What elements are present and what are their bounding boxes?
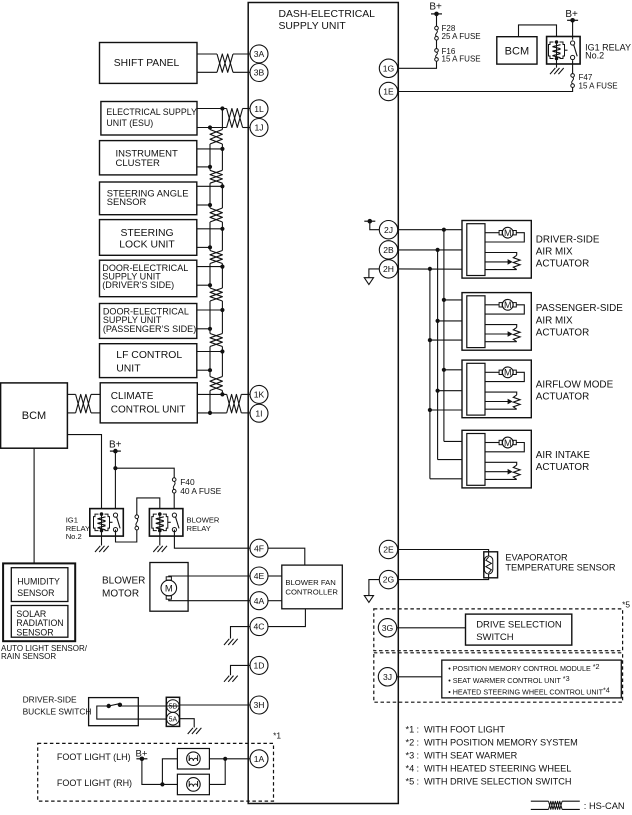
svg-text::: : bbox=[417, 725, 420, 735]
BCM box (top right) bbox=[497, 37, 537, 64]
svg-text:• HEATED STEERING WHEEL CONTRO: • HEATED STEERING WHEEL CONTROL UNIT*4 bbox=[448, 686, 610, 697]
label *1 bbox=[273, 731, 281, 741]
twisted pair chain segment 7 bbox=[210, 377, 222, 391]
svg-text:3J: 3J bbox=[383, 672, 392, 682]
svg-text:(PASSENGER’S SIDE): (PASSENGER’S SIDE) bbox=[103, 324, 196, 334]
svg-text:SUPPLY UNIT: SUPPLY UNIT bbox=[279, 21, 347, 32]
wire IG1 coil ground bbox=[556, 59, 558, 68]
svg-text:ACTUATOR: ACTUATOR bbox=[536, 392, 589, 403]
wire junction to F40 bbox=[115, 468, 174, 478]
svg-text:B+: B+ bbox=[109, 439, 122, 450]
svg-text:M: M bbox=[504, 438, 512, 448]
svg-text:BUCKLE SWITCH: BUCKLE SWITCH bbox=[23, 707, 92, 717]
wire twist to 1J bbox=[243, 127, 250, 129]
connector 2B bbox=[379, 241, 397, 259]
B+ supply foot light bbox=[136, 748, 148, 761]
svg-text:2H: 2H bbox=[383, 264, 394, 274]
driver-side air mix actuator bbox=[462, 221, 531, 279]
LF control unit box bbox=[100, 344, 197, 378]
wire twist to climate top bbox=[91, 393, 100, 395]
svg-text:WITH SEAT WARMER: WITH SEAT WARMER bbox=[424, 751, 518, 761]
svg-text:DRIVER-SIDE: DRIVER-SIDE bbox=[536, 234, 600, 245]
wire B+ to F28 bbox=[436, 14, 438, 26]
svg-text:1J: 1J bbox=[254, 123, 263, 133]
dash-electrical supply unit label bbox=[279, 9, 376, 32]
wire instrument cluster top bbox=[197, 147, 224, 151]
wire 2E to sensor bbox=[398, 550, 489, 557]
branch to actuator 2 motor bbox=[442, 298, 462, 302]
svg-text:UNIT: UNIT bbox=[116, 363, 141, 374]
wire 5B to 3H bbox=[180, 704, 250, 706]
twisted pair chain segment 5 bbox=[210, 288, 222, 301]
label *5 bbox=[622, 599, 630, 609]
electrical supply unit (ESU) box bbox=[101, 102, 197, 136]
svg-text:LF CONTROL: LF CONTROL bbox=[116, 350, 182, 361]
blower fan controller box bbox=[282, 565, 343, 609]
svg-text:WITH POSITION MEMORY SYSTEM: WITH POSITION MEMORY SYSTEM bbox=[424, 738, 578, 748]
wire B+ to lamps bbox=[142, 759, 178, 787]
svg-text:WITH FOOT LIGHT: WITH FOOT LIGHT bbox=[424, 725, 505, 735]
svg-text:DRIVE SELECTION: DRIVE SELECTION bbox=[476, 620, 562, 631]
connector 2G bbox=[379, 570, 397, 588]
connector 4E bbox=[250, 567, 268, 585]
wire 4E to controller bbox=[268, 575, 282, 577]
wire door esu passenger top bbox=[197, 308, 224, 312]
svg-text:4C: 4C bbox=[254, 622, 265, 632]
wire 2B to bus bbox=[398, 248, 462, 252]
wire ESU to 1J bbox=[197, 127, 227, 129]
wire shift panel to 3A bbox=[197, 53, 217, 55]
door-electrical supply unit (driver) box bbox=[100, 260, 197, 297]
wire steering angle sensor top bbox=[197, 184, 224, 188]
wire climate to 1K bbox=[197, 392, 227, 396]
connector 2E bbox=[379, 540, 397, 558]
svg-text:25 A FUSE: 25 A FUSE bbox=[442, 32, 481, 41]
twisted pair shift panel bbox=[217, 54, 233, 72]
wire F47 to 1E bbox=[398, 87, 573, 91]
wire 2G to sensor bbox=[398, 574, 489, 580]
wire BCM to IG1 relay coil bbox=[67, 435, 101, 509]
svg-text:WITH DRIVE SELECTION SWITCH: WITH DRIVE SELECTION SWITCH bbox=[424, 776, 572, 786]
svg-text:(DRIVER’S SIDE): (DRIVER’S SIDE) bbox=[102, 280, 174, 290]
twisted pair BCM-climate bbox=[76, 394, 91, 413]
dashed option box 3J bbox=[374, 653, 623, 702]
wire BCM to twist top bbox=[67, 393, 75, 395]
bus 2J vertical bbox=[444, 230, 462, 442]
svg-text:3G: 3G bbox=[382, 623, 394, 633]
wire 5A to ground bbox=[180, 719, 195, 728]
wire LH lamp to 1A bbox=[209, 757, 250, 761]
wire twist to climate bottom bbox=[91, 412, 100, 414]
passenger-side air mix actuator bbox=[462, 293, 531, 351]
svg-text:RELAY: RELAY bbox=[187, 524, 211, 533]
wire 1D to ground bbox=[231, 665, 251, 675]
svg-text:1G: 1G bbox=[383, 63, 395, 73]
svg-text:AIR MIX: AIR MIX bbox=[536, 315, 573, 326]
label BLOWER relay bbox=[187, 516, 220, 534]
label IG1 relay No.2 bbox=[585, 42, 631, 60]
wire B+ down bbox=[114, 451, 116, 509]
wire shift panel to 3B bbox=[197, 71, 217, 73]
label F40 bbox=[180, 477, 221, 496]
svg-text:3A: 3A bbox=[254, 49, 265, 59]
svg-text:*1: *1 bbox=[406, 725, 415, 735]
wire BCM to IG1 relay bbox=[519, 25, 557, 37]
lamp foot light LH bbox=[177, 749, 209, 770]
wire RH lamp up bbox=[209, 759, 225, 785]
relay BLOWER (mid-left) bbox=[149, 509, 183, 536]
shift panel box bbox=[100, 43, 198, 84]
wire door esu passenger bottom bbox=[197, 327, 212, 331]
ground 4C bbox=[224, 639, 238, 645]
svg-text:*1: *1 bbox=[273, 731, 281, 741]
svg-text:4E: 4E bbox=[254, 571, 265, 581]
wire CAN bus left line bbox=[209, 128, 211, 413]
wire blower coil to ground bbox=[159, 531, 161, 546]
dash-electrical supply unit box bbox=[248, 3, 398, 804]
label driver-side buckle switch bbox=[23, 694, 92, 716]
svg-text:M: M bbox=[504, 300, 512, 310]
svg-text:DRIVER-SIDE: DRIVER-SIDE bbox=[23, 694, 77, 704]
blower motor box bbox=[150, 563, 188, 612]
connector 1D bbox=[250, 656, 268, 674]
svg-text:*4: *4 bbox=[406, 763, 415, 773]
legend HS-CAN label bbox=[584, 801, 625, 811]
svg-text:M: M bbox=[165, 584, 173, 595]
svg-text:3H: 3H bbox=[254, 700, 265, 710]
connector 1I bbox=[250, 404, 268, 422]
svg-text:2G: 2G bbox=[383, 575, 395, 585]
svg-text:HUMIDITY: HUMIDITY bbox=[17, 577, 60, 587]
lamp foot light RH bbox=[177, 774, 209, 795]
svg-text:WITH HEATED STEERING WHEEL: WITH HEATED STEERING WHEEL bbox=[424, 763, 571, 773]
wire LF control top bbox=[197, 349, 224, 353]
motor M1 blower bbox=[161, 577, 177, 599]
dashed option box foot light bbox=[38, 743, 274, 801]
ground 2H triangle bbox=[364, 278, 373, 285]
connector 1L bbox=[250, 100, 268, 118]
steering angle sensor box bbox=[100, 182, 197, 215]
wire twist to 3B bbox=[233, 71, 250, 73]
wire twist to 1I bbox=[241, 412, 250, 414]
svg-text:BLOWER: BLOWER bbox=[102, 576, 145, 587]
buckle switch contacts bbox=[97, 703, 180, 720]
wire 3J to option list bbox=[397, 676, 442, 678]
wire steering lock unit top bbox=[197, 227, 224, 231]
wire twist to 3A bbox=[233, 53, 250, 55]
wire BCM to sensors bbox=[33, 448, 35, 563]
svg-text:15 A FUSE: 15 A FUSE bbox=[442, 54, 481, 63]
svg-text:4F: 4F bbox=[254, 543, 264, 553]
svg-text:1I: 1I bbox=[255, 408, 262, 418]
ground buckle switch bbox=[188, 728, 202, 734]
wire ESU to 1L bbox=[197, 108, 227, 110]
wire 4C to controller bbox=[268, 609, 305, 627]
ground IG1 relay (top) bbox=[550, 68, 564, 74]
auto light/rain sensor outer box bbox=[3, 563, 75, 641]
ground 2H wire bbox=[369, 269, 379, 278]
ground 2G triangle bbox=[364, 596, 373, 603]
connector 3B bbox=[250, 64, 268, 82]
connector 4C bbox=[250, 618, 268, 636]
node ESU bottom junction bbox=[208, 125, 212, 129]
branch to actuator 3 low bbox=[428, 408, 462, 412]
svg-text:SWITCH: SWITCH bbox=[476, 632, 514, 643]
wire F16 to 1G bbox=[398, 61, 437, 68]
svg-text:RAIN SENSOR: RAIN SENSOR bbox=[1, 652, 56, 661]
svg-text:STEERING: STEERING bbox=[120, 228, 173, 239]
twisted pair climate bbox=[227, 394, 242, 413]
svg-text:1A: 1A bbox=[254, 754, 265, 764]
wire instrument cluster bottom bbox=[197, 165, 212, 169]
wire blower motor to 4A bbox=[169, 599, 250, 601]
humidity sensor box bbox=[11, 568, 68, 602]
wire climate to 1I bbox=[197, 411, 227, 415]
branch to actuator 2 mid bbox=[436, 319, 463, 323]
svg-text:MOTOR: MOTOR bbox=[102, 589, 139, 600]
svg-text:• SEAT WARMER CONTROL UNIT *3: • SEAT WARMER CONTROL UNIT *3 bbox=[448, 674, 569, 685]
svg-text:2J: 2J bbox=[384, 225, 393, 235]
svg-text:No.2: No.2 bbox=[585, 51, 604, 61]
svg-text:5B: 5B bbox=[169, 704, 178, 711]
svg-text:CLIMATE: CLIMATE bbox=[111, 391, 154, 402]
label foot light LH bbox=[57, 752, 131, 762]
ground 2G wire bbox=[369, 580, 379, 596]
wire CAN bus right line bbox=[221, 109, 223, 395]
svg-text:1K: 1K bbox=[254, 390, 265, 400]
svg-text:DASH-ELECTRICAL: DASH-ELECTRICAL bbox=[279, 9, 376, 20]
wire steering lock unit bottom bbox=[197, 245, 212, 249]
B+ supply (relay) bbox=[565, 9, 578, 23]
svg-text:BLOWER FAN: BLOWER FAN bbox=[285, 578, 335, 587]
svg-text:M: M bbox=[504, 228, 512, 238]
label air intake actuator bbox=[536, 450, 591, 473]
svg-text:No.2: No.2 bbox=[66, 532, 82, 541]
svg-text:15 A FUSE: 15 A FUSE bbox=[579, 81, 618, 90]
svg-text:ACTUATOR: ACTUATOR bbox=[536, 462, 589, 473]
svg-text:AIR MIX: AIR MIX bbox=[536, 247, 573, 258]
svg-text:SHIFT PANEL: SHIFT PANEL bbox=[114, 58, 180, 69]
relay IG1 No.2 (top right) bbox=[547, 37, 581, 65]
wire twist to 1K bbox=[241, 393, 250, 395]
dashed option box drive selection bbox=[374, 609, 623, 651]
B+ supply (top) bbox=[429, 1, 442, 16]
door-electrical supply unit (passenger) box bbox=[100, 304, 197, 339]
svg-text:B+: B+ bbox=[429, 1, 442, 12]
svg-text:CLUSTER: CLUSTER bbox=[116, 158, 160, 169]
wire blower motor to 4E bbox=[169, 575, 250, 578]
BCM box bbox=[1, 383, 68, 448]
branch to actuator 3 motor bbox=[442, 368, 462, 372]
svg-text:EVAPORATOR: EVAPORATOR bbox=[505, 552, 568, 562]
ground IG1 relay coil bbox=[95, 546, 109, 552]
wire IG1 switch to F47 bbox=[572, 60, 574, 73]
connector 2J bbox=[379, 221, 397, 239]
svg-text:AIRFLOW MODE: AIRFLOW MODE bbox=[536, 379, 614, 390]
svg-text:SENSOR: SENSOR bbox=[17, 588, 54, 598]
wire 2H to bus bbox=[398, 267, 462, 271]
svg-text:SENSOR: SENSOR bbox=[107, 196, 147, 207]
instrument cluster box bbox=[100, 141, 197, 175]
svg-text:3B: 3B bbox=[254, 68, 265, 78]
svg-text:1L: 1L bbox=[254, 104, 264, 114]
legend HS-CAN twisted pair bbox=[531, 801, 580, 809]
steering lock unit box bbox=[100, 220, 197, 256]
bus 2B vertical bbox=[438, 250, 462, 460]
buckle switch box bbox=[89, 698, 139, 726]
svg-text:ELECTRICAL SUPPLY: ELECTRICAL SUPPLY bbox=[106, 107, 197, 117]
fuse F40 bbox=[172, 478, 176, 493]
wire steering angle sensor bottom bbox=[197, 203, 212, 207]
twisted pair chain segment 2 bbox=[210, 170, 222, 183]
connector 1E bbox=[379, 82, 397, 100]
blower motor label bbox=[102, 576, 145, 600]
ground 1D bbox=[224, 676, 238, 682]
wire IG1 switch to blower coil bbox=[116, 498, 160, 542]
svg-text:AIR INTAKE: AIR INTAKE bbox=[536, 450, 591, 461]
svg-text:2E: 2E bbox=[383, 545, 394, 555]
svg-text:TEMPERATURE SENSOR: TEMPERATURE SENSOR bbox=[505, 562, 615, 572]
wire B+ to IG1 switch bbox=[572, 20, 574, 39]
wire IG1 coil to ground bbox=[101, 531, 103, 546]
solar radiation sensor box bbox=[11, 606, 68, 638]
fuse F47 bbox=[571, 74, 575, 88]
wire twist to 1L bbox=[243, 108, 250, 110]
wire 2J to bus bbox=[398, 228, 462, 232]
svg-text:1E: 1E bbox=[383, 87, 394, 97]
svg-text:*5: *5 bbox=[622, 599, 630, 609]
svg-text:ACTUATOR: ACTUATOR bbox=[536, 259, 589, 270]
svg-text:BCM: BCM bbox=[505, 46, 529, 58]
bus 2H vertical bbox=[430, 269, 462, 479]
label airflow mode actuator bbox=[536, 379, 614, 402]
connector 3A bbox=[250, 45, 268, 63]
label F16 bbox=[442, 47, 481, 64]
svg-text:CONTROLLER: CONTROLLER bbox=[285, 587, 338, 596]
B+ tap 2J bbox=[364, 219, 379, 230]
connector 5B/5A block bbox=[166, 697, 179, 726]
option list box bbox=[442, 660, 622, 698]
svg-text:PASSENGER-SIDE: PASSENGER-SIDE bbox=[536, 303, 623, 314]
wire blower switch to 4F bbox=[174, 530, 250, 549]
connector 1J bbox=[250, 119, 268, 137]
label driver-side air mix actuator bbox=[536, 234, 600, 269]
airflow mode actuator bbox=[462, 360, 531, 418]
label foot light RH bbox=[57, 778, 132, 788]
wire F40 to blower relay switch bbox=[173, 493, 175, 509]
svg-text:ACTUATOR: ACTUATOR bbox=[536, 328, 589, 339]
twisted pair chain segment 3 bbox=[210, 208, 222, 222]
svg-text::: : bbox=[417, 751, 420, 761]
label F28 bbox=[442, 24, 481, 41]
branch to actuator 2 low bbox=[428, 338, 462, 342]
connector 1G bbox=[379, 59, 397, 77]
connector 4A bbox=[250, 592, 268, 610]
B+ supply (mid-left) bbox=[109, 439, 122, 453]
label IG1 relay bbox=[66, 516, 90, 542]
svg-text:FOOT LIGHT (LH): FOOT LIGHT (LH) bbox=[57, 752, 131, 762]
twisted pair chain segment 4 bbox=[210, 251, 222, 264]
svg-text:2B: 2B bbox=[383, 245, 394, 255]
svg-text:40 A FUSE: 40 A FUSE bbox=[180, 486, 221, 496]
svg-text::: : bbox=[417, 738, 420, 748]
connector 4F bbox=[250, 539, 268, 557]
svg-text:FOOT LIGHT (RH): FOOT LIGHT (RH) bbox=[57, 778, 132, 788]
connector 1A bbox=[250, 750, 268, 768]
wire door esu driver bottom bbox=[197, 283, 212, 287]
label passenger-side air mix actuator bbox=[536, 303, 623, 338]
evaporator temperature sensor bbox=[484, 552, 498, 578]
node B+ junction bbox=[113, 466, 117, 470]
fuse F28 bbox=[435, 26, 439, 40]
svg-text:CONTROL UNIT: CONTROL UNIT bbox=[111, 405, 186, 416]
svg-text:5A: 5A bbox=[169, 716, 178, 723]
wire 3G to drive selection switch bbox=[397, 627, 466, 629]
svg-text:*3: *3 bbox=[406, 751, 415, 761]
wire F28 to F16 bbox=[436, 40, 438, 49]
twisted pair ESU bbox=[227, 109, 243, 128]
svg-text::: : bbox=[417, 763, 420, 773]
svg-text:*2: *2 bbox=[406, 738, 415, 748]
connector 3J bbox=[378, 668, 396, 686]
connector 3G bbox=[378, 619, 396, 637]
air intake actuator bbox=[462, 430, 531, 488]
svg-text:4A: 4A bbox=[254, 596, 265, 606]
svg-text::: : bbox=[417, 776, 420, 786]
fuse F16 bbox=[435, 49, 439, 62]
svg-text:SENSOR: SENSOR bbox=[16, 628, 53, 638]
climate control unit box bbox=[100, 383, 197, 423]
svg-text:*5: *5 bbox=[406, 776, 415, 786]
svg-text:• POSITION MEMORY CONTROL MODU: • POSITION MEMORY CONTROL MODULE *2 bbox=[448, 662, 599, 673]
wire 4A to controller bbox=[268, 600, 282, 602]
ground blower relay coil bbox=[153, 546, 167, 552]
connector 2H bbox=[379, 260, 397, 278]
wire door esu driver top bbox=[197, 265, 224, 269]
svg-text:UNIT (ESU): UNIT (ESU) bbox=[106, 118, 153, 128]
connector 3H bbox=[250, 696, 268, 714]
connector 1K bbox=[250, 385, 268, 403]
relay IG1 No.2 (mid-left) bbox=[90, 509, 124, 536]
label auto light sensor/rain sensor bbox=[1, 644, 88, 661]
twisted pair chain segment 6 bbox=[210, 334, 222, 347]
wire LF control bottom bbox=[197, 368, 212, 372]
branch to actuator 3 mid bbox=[436, 389, 463, 393]
label evaporator temperature sensor bbox=[505, 552, 615, 572]
label F47 bbox=[579, 73, 618, 90]
connector inline (between relays) bbox=[135, 515, 139, 530]
wire 4F to controller bbox=[268, 548, 305, 565]
svg-text:1D: 1D bbox=[254, 661, 265, 671]
svg-text:M: M bbox=[504, 368, 512, 378]
svg-text:BCM: BCM bbox=[22, 410, 46, 422]
twisted pair chain segment 1 bbox=[210, 130, 222, 145]
footnotes bbox=[406, 725, 578, 787]
node ESU top junction bbox=[220, 106, 224, 110]
wire 4C to ground bbox=[231, 627, 251, 639]
svg-text:: HS-CAN: : HS-CAN bbox=[584, 801, 625, 811]
wire BCM to twist bottom bbox=[67, 412, 75, 414]
drive selection switch box bbox=[466, 614, 572, 645]
svg-text:LOCK UNIT: LOCK UNIT bbox=[119, 240, 175, 251]
